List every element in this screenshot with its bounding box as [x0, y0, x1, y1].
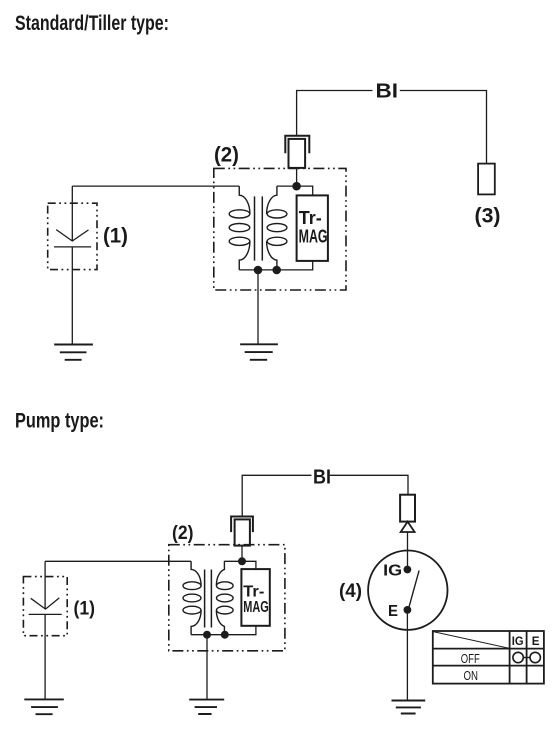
OFF continuity circles [513, 652, 523, 662]
wire: connector to BI label (bottom) [242, 475, 311, 516]
wire: bottom bus (bottom box) [191, 626, 256, 635]
svg-text:OFF: OFF [461, 652, 480, 666]
connector terminal (female bullet, bottom) [231, 517, 253, 533]
connector terminal (female bullet, top) [285, 136, 309, 154]
transformer core (top) [255, 196, 263, 260]
spark plug (1) dash-dot box, bottom [23, 577, 67, 636]
wire: node to secondary and Tr-MAG (top) [277, 186, 313, 195]
junction dot top [292, 182, 301, 191]
transformer secondary winding (top) [267, 186, 277, 270]
ground under box (2) top [240, 344, 278, 360]
svg-text:Tr-: Tr- [299, 208, 322, 228]
Tr-MAG unit box (bottom) [241, 569, 269, 626]
E terminal dot [404, 606, 412, 614]
switch continuity table [433, 631, 544, 684]
svg-text:(1): (1) [74, 599, 96, 620]
wire: winding bus to ground (bottom) [206, 635, 208, 700]
svg-text:E: E [532, 634, 540, 648]
svg-text:E: E [388, 603, 398, 620]
ground under box (2) bottom [189, 700, 224, 714]
wire: node to secondary and Tr-MAG (bottom) [224, 561, 256, 569]
svg-text:IG: IG [383, 562, 402, 579]
transformer secondary winding (bottom) [216, 561, 224, 634]
transformer primary winding (top) [239, 186, 250, 270]
wire: (1) to primary winding (top) [72, 185, 239, 187]
wire: circle top to IG terminal [407, 551, 409, 570]
transformer primary winding (bottom) [191, 561, 201, 634]
svg-text:Pump type:: Pump type: [15, 409, 104, 432]
ground under (1) bottom [24, 699, 64, 714]
ignition switch (4) circle [368, 551, 447, 630]
wire: male connector to switch [407, 532, 409, 551]
connector (3) [478, 164, 495, 195]
table diagonal [433, 632, 509, 649]
wire: winding bus to ground (top) [257, 270, 259, 344]
svg-text:(2): (2) [214, 143, 239, 166]
spark plug electrode gap, bottom [29, 561, 62, 614]
wire: connector into box (bottom) [241, 546, 243, 562]
svg-text:(1): (1) [103, 224, 128, 247]
transformer core (bottom) [205, 570, 212, 628]
wire: connector into box [296, 168, 298, 186]
svg-text:BI: BI [376, 81, 399, 103]
ignition unit box (2) dash-dot, bottom [169, 545, 285, 651]
junction dot top (bottom diagram) [238, 557, 246, 565]
wire: bottom bus (top box) [239, 261, 312, 270]
switch blade [409, 571, 420, 609]
svg-text:MAG: MAG [299, 226, 328, 246]
connector terminal (male bullet) [400, 495, 415, 522]
junction dot bottom-left (top) [254, 266, 263, 275]
svg-text:BI: BI [313, 467, 331, 489]
svg-text:MAG: MAG [243, 599, 268, 616]
wire: BI label to male connector (bottom) [330, 475, 408, 494]
spark plug (1) dash-dot box, top [48, 203, 97, 269]
ground under switch (4) [392, 701, 426, 714]
svg-text:IG: IG [512, 634, 524, 648]
Tr-MAG unit box (top) [297, 195, 328, 261]
svg-text:(3): (3) [475, 204, 501, 227]
svg-text:(2): (2) [172, 523, 194, 544]
junction dot bottom-right (top) [272, 266, 281, 275]
ignition unit box (2) dash-dot, top [214, 168, 346, 290]
wire: spark plug to ground (bottom) [44, 614, 46, 699]
wire: BI label to connector (3) [400, 91, 487, 164]
svg-text:ON: ON [464, 669, 479, 683]
wire: (1) to primary winding (bottom) [45, 560, 191, 562]
wire: spark plug to ground [71, 247, 73, 345]
wire: E terminal to ground [406, 610, 408, 701]
wire: connector to BI label (top) [297, 91, 373, 136]
IG terminal dot [404, 566, 412, 574]
junction dot bottom-left (bottom) [203, 631, 211, 639]
svg-text:Standard/Tiller type:: Standard/Tiller type: [15, 12, 169, 35]
svg-text:(4): (4) [339, 581, 362, 602]
ground under (1) top [54, 345, 93, 360]
junction dot bottom-right (bottom) [221, 631, 229, 639]
spark plug electrode gap, top [54, 186, 91, 247]
